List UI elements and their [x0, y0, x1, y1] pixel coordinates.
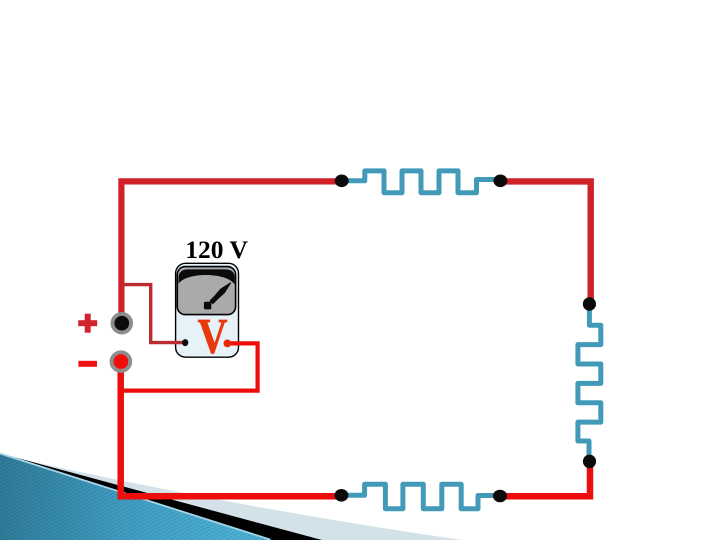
voltmeter scale arc band — [179, 269, 235, 284]
voltmeter V letter — [198, 308, 228, 363]
node: top-right junction dot — [493, 175, 507, 188]
plus sign label — [78, 314, 97, 333]
wire: crimson from + terminal up left side and across top to R1 — [121, 181, 341, 323]
svg-text:V: V — [198, 308, 228, 363]
voltmeter needle pivot — [204, 302, 211, 310]
voltmeter display face — [177, 267, 235, 315]
node: right-upper junction dot — [583, 297, 596, 311]
node: top-left junction dot — [335, 175, 349, 188]
label: 120 V — [185, 235, 248, 264]
voltmeter right terminal — [224, 340, 232, 348]
node: right-lower junction dot — [583, 455, 596, 469]
wire: bright red from voltmeter right terminal down to bottom branch — [119, 343, 258, 390]
battery + terminal (black post with gray ring) — [113, 314, 132, 333]
wire: bright red from - terminal down and along bottom to R3 — [121, 362, 342, 497]
node: bottom-left junction dot — [334, 489, 348, 502]
wire: bright red bottom-right from R3 to R2 — [500, 461, 590, 496]
minus sign label — [78, 361, 97, 367]
wire: crimson branch from left wire to voltmeter left terminal — [121, 285, 185, 343]
node: bottom-right junction dot — [493, 490, 507, 503]
resistor R2 (right) — [578, 304, 601, 461]
voltmeter U1 body — [176, 263, 239, 357]
svg-text:120 V: 120 V — [185, 235, 248, 264]
resistor R3 (bottom) — [341, 484, 500, 508]
wire: crimson top-right from R1 down right side to R2 — [500, 181, 590, 304]
voltmeter needle — [210, 283, 231, 304]
voltmeter left terminal — [182, 339, 188, 346]
battery - terminal (red post with gray ring) — [112, 352, 131, 371]
resistor R1 (top) — [342, 171, 501, 193]
